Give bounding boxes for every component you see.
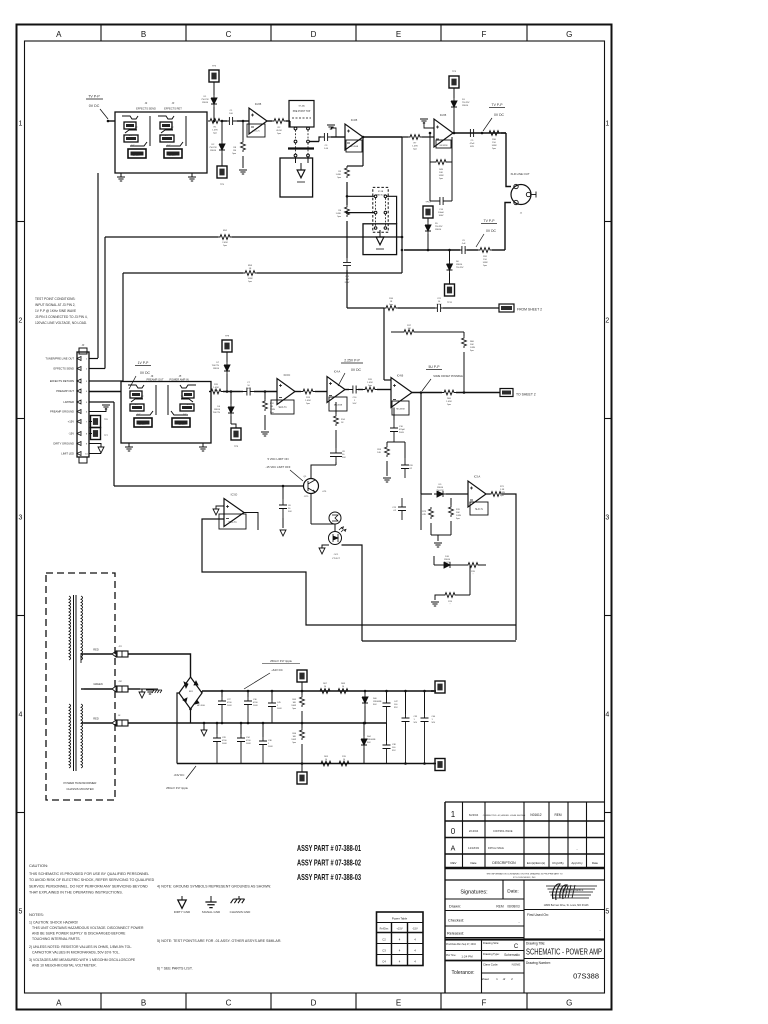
svg-text:TV P-P: TV P-P (88, 95, 100, 99)
svg-text:G: G (566, 999, 572, 1008)
svg-text:11880 Borman Drive, St. Louis: 11880 Borman Drive, St. Louis, MO 63146 (544, 904, 590, 907)
svg-text:4) NOTE: GROUND SYMBOLS REPRE: 4) NOTE: GROUND SYMBOLS REPRESENT GROUND… (157, 885, 271, 889)
svg-text:1N914: 1N914 (462, 105, 469, 107)
svg-text:100V: 100V (253, 705, 258, 707)
svg-text:PRE POINT TOP: PRE POINT TOP (293, 111, 311, 113)
svg-text:EFFECTS RETURN: EFFECTS RETURN (50, 379, 74, 383)
svg-text:1/4W: 1/4W (248, 278, 253, 280)
svg-text:THIS UNIT CONTAINS HAZARDOUS V: THIS UNIT CONTAINS HAZARDOUS VOLTAGE. DI… (32, 926, 144, 930)
svg-text:Drawing Size:: Drawing Size: (483, 941, 499, 945)
svg-text:100V: 100V (268, 746, 273, 748)
svg-text:F: F (482, 999, 487, 1008)
svg-text:Ref/Des: Ref/Des (380, 928, 389, 931)
svg-text:5pw: 5pw (368, 385, 372, 387)
svg-text:POWER TRANSFORMER: POWER TRANSFORMER (64, 781, 97, 785)
svg-text:Drawn:: Drawn: (449, 905, 461, 909)
svg-text:Schematic: Schematic (504, 953, 520, 957)
svg-text:6) * SEE PARTS LIST.: 6) * SEE PARTS LIST. (157, 967, 193, 971)
svg-text:1N914: 1N914 (214, 409, 221, 411)
svg-text:TP10: TP10 (425, 202, 431, 204)
svg-text:DIRTY GND: DIRTY GND (174, 910, 191, 914)
svg-text:0V DC: 0V DC (89, 104, 100, 108)
svg-text:0V DC: 0V DC (140, 371, 151, 375)
svg-text:MC4558: MC4558 (350, 146, 359, 148)
svg-text:1/4W: 1/4W (291, 739, 296, 741)
svg-text:N/C: N/C (164, 135, 168, 137)
svg-text:PREAMP GROUND: PREAMP GROUND (50, 410, 74, 414)
svg-text:5pw: 5pw (500, 495, 504, 497)
svg-text:1M: 1M (233, 150, 236, 152)
svg-text:50V: 50V (353, 403, 357, 405)
svg-text:750 PIV: 750 PIV (209, 147, 217, 149)
svg-text:1.49K: 1.49K (213, 387, 219, 389)
svg-text:1N914: 1N914 (213, 368, 220, 370)
svg-text:App'd by: App'd by (571, 861, 583, 865)
svg-text:5pw: 5pw (214, 390, 218, 392)
svg-text:750 PIV: 750 PIV (201, 99, 209, 101)
svg-text:1N914: 1N914 (444, 559, 451, 561)
svg-text:750 PIV: 750 PIV (443, 562, 451, 564)
svg-text:1: 1 (451, 810, 456, 819)
svg-text:Sheet: Sheet (481, 977, 489, 981)
svg-text:250mV P-P ripple: 250mV P-P ripple (166, 786, 188, 790)
svg-text:5: 5 (605, 909, 609, 916)
svg-text:MC4558: MC4558 (440, 145, 449, 147)
svg-text:1.3K: 1.3K (500, 489, 505, 491)
svg-text:5pw: 5pw (447, 404, 451, 406)
svg-text:49.9K: 49.9K (276, 130, 282, 132)
svg-text:2) UNLESS NOTED: RESISTOR VALU: 2) UNLESS NOTED: RESISTOR VALUES IN OHMS… (29, 945, 132, 949)
svg-text:TO SHEET 2: TO SHEET 2 (516, 393, 536, 397)
svg-text:1/4W: 1/4W (492, 145, 497, 147)
svg-text:POWER AMP IN: POWER AMP IN (169, 378, 188, 382)
svg-text:5pw: 5pw (413, 149, 417, 151)
svg-text:Drawing Number:: Drawing Number: (526, 961, 551, 965)
svg-text:5pw: 5pw (470, 350, 474, 352)
svg-text:RED: RED (93, 648, 99, 652)
svg-text:120VAC LINE VOLTAGE, NO LOAD.: 120VAC LINE VOLTAGE, NO LOAD. (35, 321, 87, 325)
svg-text:100V: 100V (439, 215, 444, 217)
svg-text:5pw: 5pw (292, 742, 296, 744)
svg-text:Ecn(s)/Ecm(s): Ecn(s)/Ecm(s) (527, 861, 545, 865)
svg-text:2.49K: 2.49K (222, 242, 228, 244)
svg-text:B: B (141, 30, 146, 39)
svg-text:1N5363B: 1N5363B (373, 701, 382, 703)
svg-text:SLO-7x: SLO-7x (252, 131, 260, 133)
svg-text:REV: REV (451, 861, 457, 865)
svg-text:LIMITER: LIMITER (63, 400, 74, 404)
svg-text:Drawing Title:: Drawing Title: (526, 942, 545, 946)
svg-text:Drawing Type:: Drawing Type: (483, 952, 500, 956)
svg-text:Plot Time:: Plot Time: (446, 954, 457, 957)
svg-text:0V DC: 0V DC (351, 368, 362, 372)
svg-text:ASSY PART # 07-388-02: ASSY PART # 07-388-02 (297, 859, 361, 868)
svg-text:D: D (311, 30, 317, 39)
svg-text:THE INFORMATION CONTAINED ON T: THE INFORMATION CONTAINED ON THIS DRAWIN… (486, 873, 563, 876)
svg-text:GREEN: GREEN (93, 682, 102, 686)
svg-text:50V: 50V (342, 457, 346, 459)
svg-text:C3: C3 (382, 949, 386, 953)
svg-text:SLEEVE: SLEEVE (168, 155, 176, 157)
svg-text:1/4W: 1/4W (456, 515, 461, 517)
svg-text:+15V: +15V (396, 927, 402, 931)
svg-text:TV P-P: TV P-P (492, 103, 504, 107)
svg-text:750 PIV: 750 PIV (436, 490, 444, 492)
svg-text:E: E (396, 30, 401, 39)
svg-text:5pw: 5pw (232, 153, 236, 155)
svg-text:N/C: N/C (128, 135, 132, 137)
svg-text:SLEEVE: SLEEVE (178, 424, 186, 426)
svg-text:SERVICE PERSONNEL. DO NOT PER: SERVICE PERSONNEL. DO NOT PERFORM ANY SE… (29, 884, 148, 888)
svg-text:50V: 50V (288, 511, 292, 513)
svg-text:INPUT SIGNAL AT J3 PIN 2,: INPUT SIGNAL AT J3 PIN 2, (35, 303, 76, 307)
svg-text:5pw: 5pw (277, 133, 281, 135)
svg-text:ASSY PART # 07-388-03: ASSY PART # 07-388-03 (297, 873, 361, 882)
svg-text:AND 10 MEGOHM DIGITAL VOLTMETE: AND 10 MEGOHM DIGITAL VOLTMETER. (32, 964, 97, 968)
svg-text:MC4558: MC4558 (334, 405, 343, 407)
svg-text:CHASSIS GND: CHASSIS GND (230, 910, 252, 914)
svg-text:1V P-P: 1V P-P (138, 361, 149, 365)
svg-text:Signatures:: Signatures: (460, 890, 487, 896)
svg-text:1.49K: 1.49K (412, 146, 418, 148)
svg-text:FROM SHEET 2: FROM SHEET 2 (517, 308, 542, 312)
svg-text:6/23/04: 6/23/04 (469, 813, 479, 817)
svg-text:RED: RED (93, 717, 99, 721)
svg-text:TO AVOID RISK OF ELECTRIC SHOC: TO AVOID RISK OF ELECTRIC SHOCK, REFER S… (29, 878, 155, 882)
svg-text:A: A (56, 30, 62, 39)
svg-text:750 PIV: 750 PIV (456, 267, 464, 269)
svg-text:-64V DC: -64V DC (174, 773, 185, 777)
svg-text:PREAMP OUT: PREAMP OUT (146, 378, 164, 382)
svg-text:Prod.Data Mon Sep 27, 2004: Prod.Data Mon Sep 27, 2004 (446, 943, 476, 946)
svg-text:IC4:B: IC4:B (397, 374, 404, 378)
svg-text:5pw: 5pw (223, 245, 227, 247)
svg-text:1:24 PM: 1:24 PM (461, 955, 473, 959)
svg-text:MP-354L: MP-354L (197, 705, 206, 707)
svg-text:IC3:D: IC3:D (231, 493, 238, 497)
svg-text:750 PIV: 750 PIV (213, 412, 221, 414)
svg-text:5pw: 5pw (337, 216, 341, 218)
svg-text:-15 VDC LIMIT OFF: -15 VDC LIMIT OFF (266, 465, 291, 469)
svg-text:N/C: N/C (137, 414, 141, 416)
svg-text:Chg'd By: Chg'd By (552, 861, 564, 865)
svg-text:XLR LINE OUT: XLR LINE OUT (510, 172, 529, 176)
svg-text:0V DC: 0V DC (486, 229, 497, 233)
svg-text:5pw: 5pw (492, 148, 496, 150)
svg-text:LIMIT LED: LIMIT LED (61, 452, 74, 456)
svg-text:THIS SCHEMATIC IS PROVIDED FOR: THIS SCHEMATIC IS PROVIDED FOR USE BY QU… (29, 872, 149, 876)
svg-text:5pw: 5pw (306, 403, 310, 405)
svg-text:A: A (451, 846, 456, 853)
svg-text:0: 0 (451, 827, 456, 836)
svg-text:SOME OFFSET POSSIBLE: SOME OFFSET POSSIBLE (433, 375, 463, 378)
svg-text:5pw: 5pw (292, 708, 296, 710)
svg-text:2: 2 (19, 318, 23, 325)
svg-text:SLO-7x: SLO-7x (475, 509, 484, 511)
svg-text:08/08/03: 08/08/03 (507, 905, 520, 909)
svg-text:CORRECTED -42, ADDED -03 AS SH: CORRECTED -42, ADDED -03 AS SHOWN (483, 814, 526, 817)
svg-text:5pw: 5pw (483, 265, 487, 267)
svg-text:100V: 100V (222, 743, 227, 745)
svg-text:2: 2 (605, 318, 609, 325)
svg-text:2/13/04: 2/13/04 (469, 829, 479, 833)
svg-text:1V P-P @ 1KHz SINE WAVE: 1V P-P @ 1KHz SINE WAVE (35, 309, 76, 313)
svg-text:Checked:: Checked: (448, 919, 464, 923)
svg-text:N/C: N/C (134, 404, 138, 406)
svg-text:C4: C4 (382, 960, 386, 964)
svg-text:5pw: 5pw (213, 133, 217, 135)
svg-text:750 PIV: 750 PIV (462, 102, 470, 104)
svg-text:5: 5 (19, 909, 23, 916)
svg-text:CHASSIS MOUNTED: CHASSIS MOUNTED (66, 787, 93, 791)
svg-text:10K: 10K (377, 452, 381, 454)
svg-text:SIGNAL GND: SIGNAL GND (202, 910, 221, 914)
svg-text:1N914: 1N914 (456, 264, 463, 266)
svg-text:750 PIV: 750 PIV (435, 226, 443, 228)
svg-text:4: 4 (19, 712, 23, 719)
svg-text:SLEEVE: SLEEVE (132, 155, 140, 157)
svg-text:Date:: Date: (507, 889, 518, 895)
svg-text:SLO-7x: SLO-7x (228, 521, 237, 524)
svg-text:Class Code:: Class Code: (483, 963, 498, 967)
svg-text:10K: 10K (470, 344, 474, 346)
svg-text:N/C: N/C (167, 145, 171, 147)
svg-text:250mV P-P ripple: 250mV P-P ripple (270, 659, 292, 663)
svg-text:200V: 200V (399, 432, 404, 434)
svg-text:1.49K: 1.49K (305, 400, 311, 402)
svg-text:J3 PIN 3 CONNECTED TO J3 PIN: J3 PIN 3 CONNECTED TO J3 PIN 4, (35, 315, 88, 319)
svg-text:1/4W: 1/4W (483, 262, 488, 264)
svg-text:4: 4 (605, 712, 609, 719)
svg-text:1N914: 1N914 (210, 150, 217, 152)
svg-text:Date: Date (470, 861, 476, 865)
svg-text:SCHEMATIC - POWER AMP: SCHEMATIC - POWER AMP (526, 948, 602, 957)
svg-text:47K: 47K (422, 514, 426, 516)
svg-text:1M: 1M (270, 406, 273, 408)
svg-text:.1uF: .1uF (461, 243, 466, 245)
svg-text:SLEEVE: SLEEVE (138, 424, 146, 426)
svg-text:5pw: 5pw (248, 281, 252, 283)
svg-text:CAPACITOR VALUES IN MICROFARAD: CAPACITOR VALUES IN MICROFARADS, 50V-10%… (32, 951, 120, 955)
svg-text:1/4W: 1/4W (470, 347, 475, 349)
svg-text:Power Table: Power Table (392, 917, 408, 921)
svg-text:10K: 10K (439, 172, 443, 174)
svg-text:ST-4A: ST-4A (298, 105, 305, 108)
svg-text:1.49K: 1.49K (336, 174, 342, 176)
svg-text:EFFECTS RET: EFFECTS RET (164, 107, 182, 111)
svg-text:-15V: -15V (68, 432, 74, 436)
svg-text:DESCRIPTION: DESCRIPTION (492, 861, 516, 865)
svg-text:SLM electronics: SLM electronics (561, 888, 584, 892)
svg-text:5) NOTE: TEST POINTS ARE FOR: 5) NOTE: TEST POINTS ARE FOR -01 ASSY. O… (157, 939, 281, 943)
svg-text:INITIAL ISSUE: INITIAL ISSUE (488, 847, 504, 850)
svg-text:50V: 50V (247, 388, 251, 390)
svg-text:200V: 200V (437, 304, 442, 306)
svg-text:REM: REM (554, 813, 561, 817)
svg-text:THAT EXPLAINED IN THE OPERATIN: THAT EXPLAINED IN THE OPERATING INSTRUCT… (29, 891, 123, 895)
svg-text:1N914: 1N914 (437, 487, 444, 489)
svg-text:CAUTION:: CAUTION: (29, 863, 48, 868)
svg-text:of: of (503, 977, 506, 981)
svg-text:N/C: N/C (186, 404, 190, 406)
svg-text:TUNER/PRE LINE OUT: TUNER/PRE LINE OUT (45, 357, 74, 361)
svg-text:2.25V P-P: 2.25V P-P (344, 359, 360, 363)
svg-text:1: 1 (19, 121, 23, 128)
svg-text:EFFECTS SEND: EFFECTS SEND (54, 367, 75, 371)
svg-text:3: 3 (19, 515, 23, 522)
svg-text:C: C (226, 999, 232, 1008)
svg-text:N/C: N/C (183, 414, 187, 416)
svg-text:EFFECTS SEND: EFFECTS SEND (136, 107, 156, 111)
svg-text:3: 3 (605, 515, 609, 522)
svg-text:470pF: 470pF (399, 429, 406, 431)
svg-text:SLO-7x: SLO-7x (278, 406, 287, 409)
svg-text:IC2:B: IC2:B (255, 102, 262, 106)
svg-text:NONE: NONE (512, 963, 521, 967)
svg-text:N01612: N01612 (530, 813, 541, 817)
svg-text:07S388: 07S388 (573, 972, 599, 981)
svg-text:3) VOLTAGES ARE MEASURED WITH: 3) VOLTAGES ARE MEASURED WITH 1 MEGOHM O… (29, 958, 136, 962)
svg-text:10K: 10K (456, 512, 460, 514)
svg-text:1/4W: 1/4W (291, 705, 296, 707)
svg-text:TV P-P: TV P-P (484, 219, 496, 223)
svg-text:Released:: Released: (447, 932, 464, 936)
svg-text:1N5363B: 1N5363B (367, 739, 376, 741)
svg-text:PREAMP OUT: PREAMP OUT (56, 389, 74, 393)
svg-text:1: 1 (605, 121, 609, 128)
svg-text:5pw: 5pw (389, 304, 393, 306)
svg-text:ASSY PART # 07-388-01: ASSY PART # 07-388-01 (297, 844, 361, 853)
svg-text:100uF: 100uF (438, 212, 445, 214)
svg-text:DIRTY GROUND: DIRTY GROUND (53, 442, 74, 446)
svg-text:D: D (311, 999, 317, 1008)
svg-text:E: E (396, 999, 401, 1008)
svg-text:1.49K: 1.49K (336, 213, 342, 215)
svg-text:G: G (566, 30, 572, 39)
svg-text:100V: 100V (277, 708, 282, 710)
svg-text:A: A (56, 999, 62, 1008)
svg-text:C: C (514, 944, 519, 950)
svg-text:VTL5C7: VTL5C7 (332, 558, 341, 560)
svg-text:IC3:A: IC3:A (474, 475, 481, 479)
svg-text:1.49K: 1.49K (367, 382, 373, 384)
svg-text:1.49K: 1.49K (446, 401, 452, 403)
svg-text:N/C: N/C (131, 145, 135, 147)
svg-text:0V DC: 0V DC (494, 113, 505, 117)
svg-text:12/18/03: 12/18/03 (468, 846, 479, 850)
svg-text:+15V: +15V (68, 420, 75, 424)
svg-text:5pw: 5pw (439, 178, 443, 180)
svg-text:100V: 100V (227, 705, 232, 707)
svg-text:OC1: OC1 (334, 554, 339, 556)
svg-text:IC2:B: IC2:B (440, 113, 447, 117)
svg-text:Date: Date (592, 861, 598, 865)
svg-text:100V: 100V (246, 743, 251, 745)
svg-text:NOTES:: NOTES: (29, 912, 44, 917)
svg-text:First Used On:: First Used On: (527, 913, 549, 917)
svg-text:REM: REM (496, 905, 504, 909)
svg-text:CONTROL ISSUE: CONTROL ISSUE (493, 830, 513, 833)
svg-text:63V: 63V (470, 146, 474, 148)
svg-text:ST LOUIS MUSIC, INC.: ST LOUIS MUSIC, INC. (513, 877, 537, 879)
svg-text:47uF: 47uF (470, 143, 475, 145)
svg-text:C2: C2 (382, 938, 386, 942)
svg-text:F: F (482, 30, 487, 39)
svg-text:B: B (141, 999, 146, 1008)
svg-text:5pw: 5pw (456, 518, 460, 520)
svg-text:5 VDC LIMIT ON: 5 VDC LIMIT ON (267, 457, 288, 461)
svg-text:TP11: TP11 (447, 302, 453, 304)
svg-text:-15V: -15V (412, 927, 418, 931)
svg-text:1) CAUTION: SHOCK HAZARD!: 1) CAUTION: SHOCK HAZARD! (29, 921, 78, 925)
svg-text:IC3:C: IC3:C (284, 373, 291, 377)
svg-text:TOUCHING INTERNAL PARTS.: TOUCHING INTERNAL PARTS. (32, 937, 81, 941)
svg-text:MC4558: MC4558 (396, 409, 405, 411)
svg-text:+64V DC: +64V DC (271, 668, 282, 672)
svg-text:ST-3B: ST-3B (378, 191, 384, 193)
svg-text:IC4:B: IC4:B (351, 118, 358, 122)
svg-text:AND BE SURE POWER SUPPLY IS DI: AND BE SURE POWER SUPPLY IS DISCHARGED B… (32, 932, 126, 936)
svg-text:1N914: 1N914 (435, 229, 442, 231)
svg-text:TEST POINT CONDITIONS:: TEST POINT CONDITIONS: (35, 297, 76, 301)
svg-text:5pw: 5pw (337, 177, 341, 179)
svg-text:Tolerance:: Tolerance: (451, 970, 474, 976)
svg-text:IC4:A: IC4:A (334, 370, 341, 374)
svg-text:1M: 1M (408, 328, 411, 330)
svg-text:1N914: 1N914 (202, 102, 209, 104)
svg-text:5U P-P: 5U P-P (429, 365, 441, 369)
svg-text:1/4W: 1/4W (439, 175, 444, 177)
svg-text:C: C (226, 30, 232, 39)
svg-text:1.49K: 1.49K (212, 130, 218, 132)
svg-text:750 PIV: 750 PIV (212, 365, 220, 367)
